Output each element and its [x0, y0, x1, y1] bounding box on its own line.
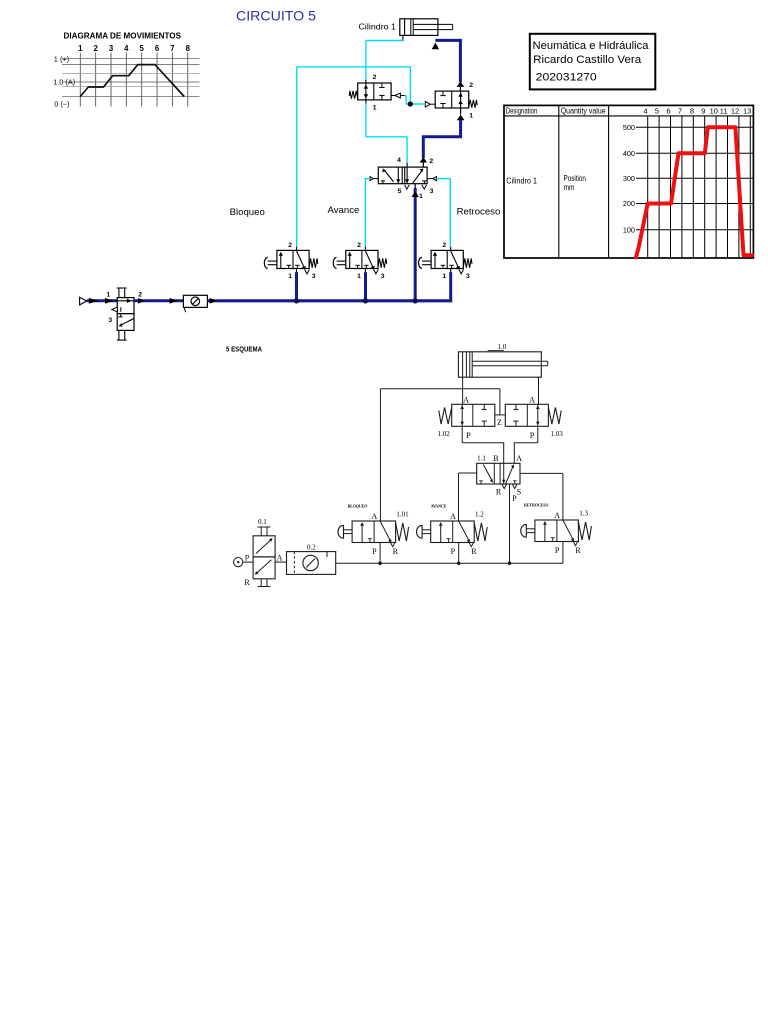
svg-text:P: P	[512, 494, 517, 503]
svg-text:P: P	[451, 547, 456, 556]
svg-text:R: R	[471, 547, 477, 556]
svg-text:CIRCUITO 5: CIRCUITO 5	[236, 9, 316, 24]
svg-text:A: A	[372, 512, 378, 521]
svg-text:200: 200	[623, 199, 635, 208]
svg-text:8: 8	[690, 107, 694, 116]
svg-text:1: 1	[357, 273, 361, 280]
svg-text:0.1: 0.1	[258, 518, 267, 526]
svg-text:Z: Z	[497, 418, 502, 427]
svg-text:R: R	[393, 547, 399, 556]
svg-text:1: 1	[469, 113, 473, 120]
svg-text:1: 1	[78, 44, 83, 53]
svg-text:2: 2	[442, 242, 446, 249]
svg-text:2: 2	[429, 158, 433, 165]
svg-text:1.01: 1.01	[396, 511, 409, 519]
svg-text:3: 3	[381, 273, 385, 280]
svg-text:3: 3	[466, 273, 470, 280]
svg-text:1.1: 1.1	[477, 455, 486, 463]
svg-text:1.03: 1.03	[551, 430, 564, 438]
svg-text:1: 1	[442, 273, 446, 280]
svg-text:7: 7	[170, 44, 174, 53]
svg-text:12: 12	[731, 107, 739, 116]
svg-text:3: 3	[108, 317, 112, 324]
svg-text:2: 2	[357, 242, 361, 249]
svg-text:5: 5	[398, 188, 402, 195]
svg-text:1.2: 1.2	[475, 511, 484, 519]
svg-text:P: P	[555, 546, 560, 555]
svg-text:1: 1	[288, 273, 292, 280]
svg-text:1.0: 1.0	[498, 343, 507, 351]
svg-text:1: 1	[419, 193, 423, 200]
svg-text:P: P	[466, 431, 471, 440]
svg-text:A: A	[516, 454, 522, 463]
svg-text:A: A	[529, 395, 535, 404]
svg-text:5: 5	[655, 107, 659, 116]
svg-text:3: 3	[430, 188, 434, 195]
svg-text:1.3: 1.3	[579, 510, 588, 518]
svg-text:1: 1	[106, 291, 110, 298]
svg-text:A: A	[463, 395, 469, 404]
svg-text:Ricardo Castillo Vera: Ricardo Castillo Vera	[533, 54, 642, 66]
svg-text:8: 8	[186, 44, 191, 53]
svg-text:2: 2	[469, 82, 473, 89]
svg-text:R: R	[496, 488, 502, 497]
svg-text:1: 1	[373, 104, 377, 111]
svg-text:DIAGRAMA DE MOVIMIENTOS: DIAGRAMA DE MOVIMIENTOS	[64, 31, 182, 41]
svg-text:11: 11	[720, 107, 728, 116]
svg-text:B: B	[493, 454, 498, 463]
svg-text:3: 3	[312, 273, 316, 280]
svg-text:4: 4	[643, 107, 647, 116]
svg-text:0.2: 0.2	[307, 543, 316, 551]
svg-text:A: A	[277, 554, 283, 563]
svg-text:4: 4	[397, 157, 401, 164]
svg-text:4: 4	[124, 44, 129, 53]
svg-text:5 ESQUEMA: 5 ESQUEMA	[226, 347, 262, 354]
svg-text:A: A	[554, 511, 560, 520]
svg-text:AVANCE: AVANCE	[431, 505, 447, 509]
svg-text:Retroceso: Retroceso	[457, 207, 501, 218]
svg-text:3: 3	[109, 44, 114, 53]
svg-text:100: 100	[623, 225, 635, 234]
svg-text:400: 400	[623, 149, 635, 158]
svg-text:0 (−): 0 (−)	[54, 99, 69, 108]
svg-text:9: 9	[701, 107, 705, 116]
svg-text:202031270: 202031270	[536, 72, 597, 84]
svg-text:500: 500	[623, 123, 635, 132]
svg-text:P: P	[245, 554, 250, 563]
svg-text:mm: mm	[564, 182, 575, 192]
svg-text:2: 2	[138, 291, 142, 298]
svg-text:1.02: 1.02	[438, 430, 451, 438]
svg-text:A: A	[450, 512, 456, 521]
svg-text:Cilindro 1: Cilindro 1	[359, 22, 397, 32]
svg-text:7: 7	[678, 107, 682, 116]
svg-text:300: 300	[623, 174, 635, 183]
svg-text:2: 2	[373, 74, 377, 81]
svg-text:2: 2	[93, 44, 98, 53]
svg-text:Bloqueo: Bloqueo	[230, 207, 265, 218]
svg-text:2: 2	[288, 242, 292, 249]
svg-text:13: 13	[743, 107, 751, 116]
svg-text:Cilindro 1: Cilindro 1	[506, 176, 537, 186]
svg-text:6: 6	[666, 107, 670, 116]
svg-text:R: R	[244, 578, 250, 587]
svg-text:R: R	[575, 546, 581, 555]
svg-text:Designation: Designation	[506, 106, 538, 116]
svg-text:P: P	[530, 431, 535, 440]
svg-text:P: P	[372, 547, 377, 556]
svg-text:Quantity value: Quantity value	[561, 106, 606, 116]
svg-text:Neumática e Hidráulica: Neumática e Hidráulica	[533, 40, 650, 52]
svg-text:Avance: Avance	[328, 205, 360, 216]
svg-text:S: S	[517, 488, 521, 497]
svg-text:10: 10	[710, 107, 718, 116]
svg-text:RETROCESO: RETROCESO	[524, 504, 548, 508]
svg-text:6: 6	[155, 44, 160, 53]
svg-text:BLOQUEO: BLOQUEO	[348, 505, 368, 509]
svg-text:5: 5	[140, 44, 145, 53]
